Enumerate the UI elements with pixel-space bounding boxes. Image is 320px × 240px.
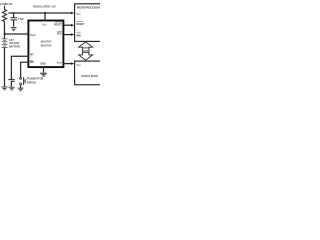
svg-text:4.7µF: 4.7µF (18, 18, 25, 21)
svg-text:BUS: BUS (83, 50, 89, 53)
node junction dot at VCC tap (44, 12, 46, 14)
svg-text:NMI: NMI (76, 34, 81, 37)
label pin PFO (overlined) (57, 31, 62, 35)
wire MR to pushbutton (21, 62, 29, 77)
wire VCC pin drop (43, 13, 48, 21)
svg-text:RESET: RESET (76, 23, 84, 26)
wire VBATT node to pin (5, 32, 29, 37)
ground G3 (IC ground) (40, 73, 47, 76)
svg-text:CMOS RAM: CMOS RAM (81, 74, 98, 78)
wire PFO to microprocessor (64, 32, 72, 37)
battery BT1 3.6V lithium (2, 39, 8, 48)
label switch PUSHBUTTON SWITCH (27, 78, 44, 85)
svg-text:MR: MR (30, 61, 34, 64)
label BUS box (83, 48, 89, 53)
wire GND pin (41, 67, 46, 73)
label battery 3.6V LITHIUM BATTERY (9, 38, 21, 49)
ground G5 (C2 ground) (9, 87, 15, 90)
label uP pin RESET (overlined) (76, 21, 84, 25)
wire battery bottom lead to ground (2, 48, 7, 87)
svg-text:PUSHBUTTON: PUSHBUTTON (27, 78, 44, 81)
ground G4 (switch ground) (18, 88, 24, 91)
ground G1 (C1 ground) (11, 28, 17, 31)
resistor R1 (2, 6, 6, 22)
svg-text:REGULATED +5V: REGULATED +5V (33, 4, 56, 8)
wire battery top lead (2, 34, 7, 39)
svg-text:GND: GND (40, 63, 46, 66)
wire R1 to node (2, 22, 7, 35)
microprocessor U2 box (75, 4, 103, 42)
label pin RESET (overlined) (54, 22, 62, 26)
svg-text:PFI: PFI (30, 53, 34, 56)
switch S1 pushbutton (20, 77, 26, 85)
label uP pin NMI (overlined) (76, 33, 81, 37)
wire +5V rail (9, 11, 73, 16)
node junction dot at C1 tap (13, 12, 15, 14)
capacitor C2 (PFI) (8, 80, 14, 87)
svg-text:RESET: RESET (54, 23, 62, 26)
node arrowhead VOUT (71, 62, 74, 65)
node arrowhead RESET (71, 24, 74, 27)
wire bus arrow (hollow double arrow) (79, 42, 93, 60)
wire RESET to microprocessor (64, 23, 72, 28)
capacitor C1 4.7uF (10, 13, 17, 27)
node junction dot VBATT node (4, 33, 6, 35)
wire PFI branch (11, 56, 29, 79)
wire VOUT to CMOS RAM (64, 61, 72, 66)
IC U1 supervisor MAX703/MAX704 box (28, 21, 63, 68)
node arrowhead VCC into uP (71, 12, 74, 15)
label pin MR (overlined) (30, 61, 34, 64)
svg-text:PFO: PFO (57, 33, 62, 36)
node arrowhead PFO (71, 33, 74, 36)
svg-text:SWITCH: SWITCH (27, 82, 37, 85)
CMOS RAM U3 box (75, 61, 103, 85)
ground G2 (battery ground) (2, 87, 8, 90)
wire switch to ground (18, 85, 23, 88)
